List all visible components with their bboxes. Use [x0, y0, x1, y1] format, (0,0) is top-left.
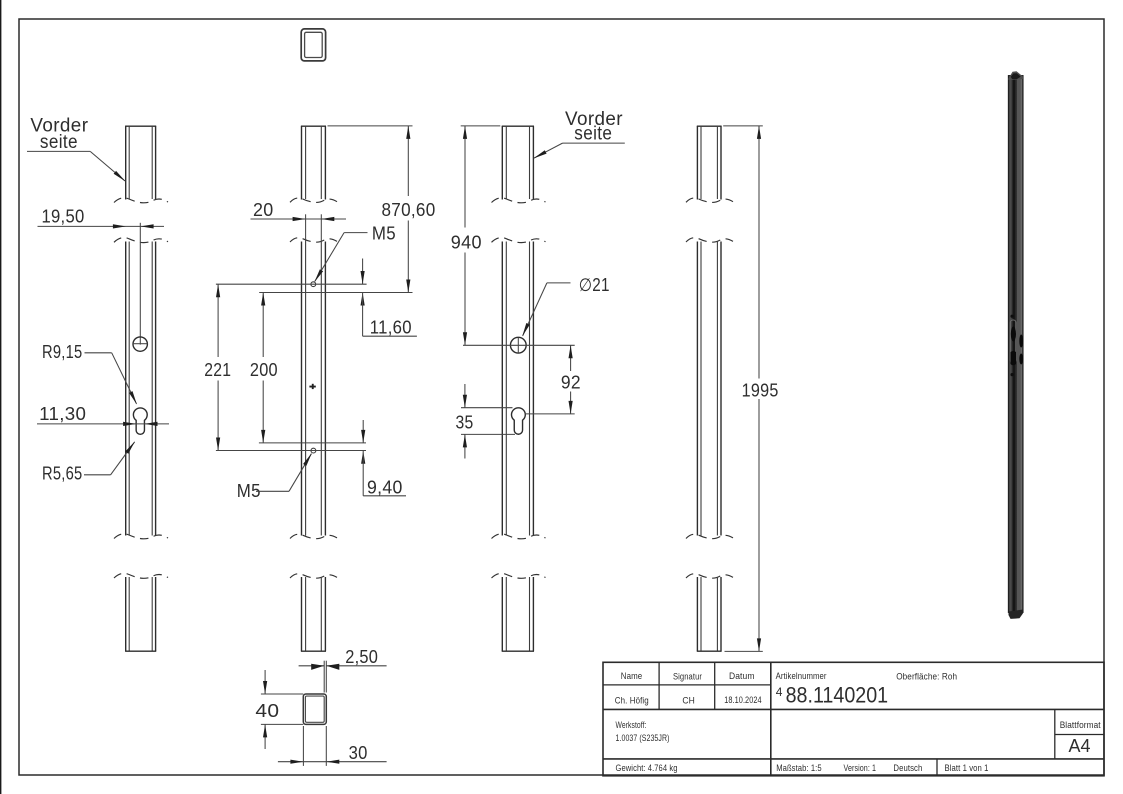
view 4 break line (segment 1 bottom) [686, 198, 733, 202]
svg-text:Werkstoff:: Werkstoff: [616, 720, 647, 730]
view 3 keyhole [512, 408, 526, 434]
dimension 1995 [723, 126, 778, 652]
label M5 (lower) with leader [237, 453, 312, 501]
dimension 92 [561, 345, 581, 414]
extension line 200 bottom [259, 442, 366, 444]
svg-text:CH: CH [682, 696, 695, 706]
dimension 30 [278, 726, 387, 766]
dimension 11,30 [37, 404, 169, 426]
svg-text:4: 4 [776, 685, 783, 699]
view 1 slot centerline upper [139, 223, 141, 345]
label R9,15 with leader [42, 342, 137, 405]
view 4 break line (segment 2 top) [686, 238, 733, 242]
svg-text:Artikelnummer: Artikelnummer [776, 671, 827, 681]
title block vertical line Blatt [936, 759, 938, 776]
svg-text:seite: seite [574, 124, 612, 145]
dimension 11,60 [361, 259, 417, 338]
view 3 round hole D21 [510, 337, 526, 353]
label D21 with leader [522, 275, 610, 337]
svg-text:R9,15: R9,15 [42, 342, 83, 362]
view 1 break line (segment 1 bottom) [114, 198, 168, 203]
svg-text:Version: 1: Version: 1 [844, 763, 877, 773]
svg-text:40: 40 [255, 701, 279, 721]
dimension 200 [250, 293, 278, 443]
view 2 centroid cross marker [309, 384, 315, 389]
view 2 profile segment 1 (top) [301, 126, 326, 199]
svg-text:92: 92 [561, 372, 581, 392]
view 1 break line (segment 3 top) [114, 573, 168, 578]
view 3 round hole D21 center tick [517, 338, 519, 353]
3D bar body [1008, 76, 1023, 613]
svg-text:30: 30 [349, 743, 368, 763]
svg-text:870,60: 870,60 [382, 200, 436, 220]
svg-text:Name: Name [621, 671, 643, 681]
dimension 221 [204, 284, 231, 450]
dimension 20 [251, 200, 347, 242]
title block vertical line B [714, 662, 716, 709]
title block horizontal line row3 [603, 758, 1104, 760]
extension line through lower M5 hole [216, 450, 366, 452]
3D bar bottom cap [1009, 610, 1023, 619]
title block [603, 662, 1104, 776]
view 4 break line (segment 3 top) [686, 574, 733, 578]
extension line through keyhole center (view 3) [525, 413, 575, 415]
dimension 940 [451, 126, 501, 345]
title block horizontal line row1 [603, 684, 771, 686]
3D bar middle cutout features [1010, 315, 1023, 377]
svg-text:2,50: 2,50 [345, 647, 378, 667]
svg-text:20: 20 [253, 200, 274, 220]
view 4 profile segment 1 (top) [697, 126, 722, 199]
view 4 break line (segment 2 bottom) [686, 534, 733, 538]
3D bar top cap [1009, 71, 1023, 80]
view 2 profile segment 2 (middle) [302, 242, 326, 536]
label M5 (upper) with leader [314, 223, 396, 282]
dimension 40 [255, 670, 303, 749]
title block vertical line Blattformat [1054, 709, 1056, 759]
dimension 19,50 [38, 207, 165, 229]
view 2 break line (segment 2 top) [290, 238, 337, 242]
svg-text:1995: 1995 [742, 381, 779, 401]
dimension 2,50 [299, 647, 387, 693]
view 3 profile segment 2 (middle) [502, 242, 533, 536]
view 1 profile segment 3 (bottom) [125, 577, 156, 651]
svg-text:A4: A4 [1069, 736, 1091, 756]
3D isometric bar [1008, 71, 1023, 619]
svg-text:1.0037 (S235JR): 1.0037 (S235JR) [616, 733, 670, 743]
svg-text:∅21: ∅21 [579, 275, 610, 295]
svg-text:Gewicht: 4.764 kg: Gewicht: 4.764 kg [616, 763, 678, 773]
svg-text:940: 940 [451, 233, 482, 253]
view 4 profile segment 3 (bottom) [697, 577, 722, 651]
title block vertical line C [770, 662, 772, 776]
view 2 break line (segment 3 top) [290, 574, 337, 578]
view 1 keyhole [133, 408, 147, 434]
top view (tube cross-section) above view 2 [301, 29, 325, 61]
extension line through D21 hole [463, 344, 575, 346]
view 1 upper circle (slot end) [133, 337, 147, 351]
svg-text:Oberfläche: Roh: Oberfläche: Roh [896, 671, 957, 681]
dimension 35 [456, 384, 516, 459]
dimension 870,60 [328, 126, 436, 293]
view 2 break line (segment 1 bottom) [290, 198, 337, 202]
svg-text:11,30: 11,30 [39, 404, 86, 424]
title block vertical line A [658, 662, 660, 709]
svg-text:9,40: 9,40 [367, 478, 403, 498]
extension line through upper M5 hole [216, 283, 367, 285]
svg-text:88.1140201: 88.1140201 [786, 682, 889, 707]
svg-text:M5: M5 [372, 223, 396, 243]
section view (bottom cross-section) [303, 694, 326, 724]
view 2 break line (segment 2 bottom) [290, 534, 337, 538]
svg-text:Deutsch: Deutsch [893, 763, 922, 773]
title block horizontal line row2 [603, 708, 1104, 710]
view 1 profile segment 1 (top) [125, 126, 156, 199]
view 1 break line (segment 2 bottom) [114, 534, 168, 539]
svg-text:seite: seite [40, 132, 78, 153]
page left edge line [0, 0, 2, 794]
svg-text:Datum: Datum [729, 671, 755, 681]
view 3 break line (segment 1 bottom) [492, 198, 546, 203]
label Vorder seite (right) [533, 109, 625, 159]
view 1 upper circle center tick [133, 343, 148, 345]
view 3 break line (segment 2 top) [492, 238, 546, 243]
svg-text:Blatt 1 von 1: Blatt 1 von 1 [945, 763, 989, 773]
svg-text:18.10.2024: 18.10.2024 [724, 695, 762, 705]
dimension 9,40 [361, 420, 406, 498]
label R5,65 with leader [42, 441, 135, 483]
svg-text:200: 200 [250, 360, 278, 380]
svg-text:Maßstab: 1:5: Maßstab: 1:5 [776, 763, 822, 773]
view 2 upper M5 hole [311, 282, 316, 287]
view 2 profile segment 3 (bottom) [301, 577, 326, 651]
title block horizontal line Blattformat/A4 [1055, 734, 1104, 736]
svg-text:19,50: 19,50 [42, 207, 85, 227]
svg-text:Blattformat: Blattformat [1060, 720, 1101, 730]
view 1 profile segment 2 (middle) [126, 242, 156, 536]
title block outer frame [603, 662, 1104, 776]
svg-text:11,60: 11,60 [370, 317, 412, 337]
view 3 break line (segment 2 bottom) [492, 534, 546, 539]
view 2 lower M5 hole [311, 448, 316, 453]
view 3 break line (segment 3 top) [492, 573, 546, 578]
view 1 break line (segment 2 top) [114, 238, 168, 243]
svg-text:Ch. Höfig: Ch. Höfig [615, 696, 649, 706]
extension line 11,60 lower [259, 292, 412, 294]
svg-text:Signatur: Signatur [673, 671, 702, 681]
label Vorder seite (left) [27, 115, 126, 181]
view 3 profile segment 3 (bottom) [502, 577, 534, 651]
svg-text:35: 35 [456, 413, 474, 433]
view 4 profile segment 2 (middle) [697, 242, 721, 536]
svg-text:221: 221 [204, 360, 231, 380]
svg-text:R5,65: R5,65 [42, 463, 83, 483]
view 3 profile segment 1 (top) [502, 126, 534, 199]
